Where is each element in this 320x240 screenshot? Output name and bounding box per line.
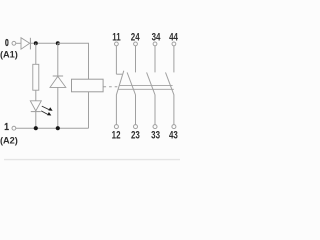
series diode D1 xyxy=(21,38,30,50)
svg-text:1: 1 xyxy=(4,122,9,133)
wire coil bottom to A2 rail xyxy=(88,92,90,128)
contact 3 label 34 xyxy=(152,31,162,42)
wire diode to node 2 xyxy=(30,42,57,44)
terminal A1 circle xyxy=(12,41,16,45)
linkage bar upper xyxy=(119,84,172,86)
terminal A1 label 0 xyxy=(5,37,9,49)
bottom rule xyxy=(4,159,180,161)
contact 24 terminal circle xyxy=(134,42,138,46)
svg-text:33: 33 xyxy=(151,130,160,141)
contact 1 label 12 xyxy=(112,130,121,141)
bottom wire A2 rail xyxy=(16,127,89,129)
node dot bottom column1 xyxy=(34,126,38,130)
contact 33 terminal circle xyxy=(153,125,157,129)
relay coil K1 xyxy=(72,79,104,92)
svg-text:11: 11 xyxy=(112,31,120,42)
contact 43-44 NO make contact xyxy=(166,46,174,125)
linkage bar lower xyxy=(118,88,174,90)
contact 33-34 NO make contact xyxy=(147,46,155,125)
terminal A2 label 1 xyxy=(4,122,9,133)
node dot top column1 xyxy=(34,41,38,45)
svg-text:0: 0 xyxy=(5,37,9,49)
svg-text:(A1): (A1) xyxy=(0,50,18,60)
freewheel diode D2 xyxy=(50,43,66,128)
svg-text:34: 34 xyxy=(152,31,162,42)
contact 3 label 33 xyxy=(151,130,160,141)
resistor R xyxy=(33,43,39,100)
wire A1 circle to diode xyxy=(16,42,21,44)
svg-text:43: 43 xyxy=(169,130,178,141)
svg-text:44: 44 xyxy=(169,31,179,42)
terminal A2 label (A2) xyxy=(0,136,18,146)
contact 43 terminal circle xyxy=(172,125,176,129)
svg-text:12: 12 xyxy=(112,130,121,141)
contact 34 terminal circle xyxy=(153,42,157,46)
terminal A2 circle xyxy=(12,126,16,130)
contact 11-12 NC break contact xyxy=(116,46,123,125)
contact 11 terminal circle xyxy=(115,42,119,46)
node dot bottom column2 xyxy=(56,126,60,130)
LED arrow 1 xyxy=(42,106,53,111)
contact 23 terminal circle xyxy=(134,125,138,129)
terminal A1 label (A1) xyxy=(0,50,18,60)
wire top node to coil, corner down xyxy=(58,43,89,79)
contact 2 label 24 xyxy=(131,31,141,42)
svg-text:(A2): (A2) xyxy=(0,136,18,146)
contact 12 terminal circle xyxy=(114,125,118,129)
svg-text:23: 23 xyxy=(131,130,140,141)
contact 4 label 43 xyxy=(169,130,178,141)
node dot top column2 xyxy=(56,41,60,45)
contact 4 label 44 xyxy=(169,31,179,42)
dashed mechanical link from coil xyxy=(104,86,119,88)
LED xyxy=(30,101,41,128)
contact 44 terminal circle xyxy=(172,42,176,46)
contact 2 label 23 xyxy=(131,130,140,141)
contact 1 label 11 xyxy=(112,31,120,42)
svg-text:24: 24 xyxy=(131,31,141,42)
contact 23-24 NO make contact xyxy=(127,46,135,125)
LED arrow 2 xyxy=(41,111,51,116)
